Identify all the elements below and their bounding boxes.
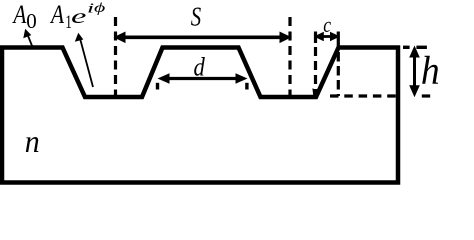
c dimension arrow [314,32,340,42]
svg-text:ϕ: ϕ [94,0,105,15]
label h [421,48,440,92]
label d [194,53,206,82]
c right tick + dashed line below ridge top [337,32,340,47]
label c [323,13,331,37]
A1 beam arrow [75,33,93,87]
d right tip tick [245,83,248,90]
svg-text:c: c [323,13,331,37]
d dimension arrow [156,73,249,89]
d left tip tick [156,83,159,90]
h dimension arrow [409,46,420,98]
svg-text:d: d [194,53,206,82]
dashed horizontal groove-bottom level line for h [330,94,400,97]
grating substrate outline [2,48,398,183]
svg-text:h: h [421,48,440,92]
A0 beam arrow [23,29,32,47]
c left tick + dashed line down to groove corner [314,32,317,44]
svg-text:A: A [49,1,64,29]
svg-text:A: A [12,1,27,29]
dashed vertical line, S right marker [288,17,291,96]
label A1 e^(i phi) [49,1,64,29]
svg-text:S: S [191,2,201,33]
dashed vertical line, S left marker [114,17,117,96]
label n [25,124,40,159]
S dimension arrow [114,32,292,44]
svg-text:e: e [71,5,87,28]
svg-text:0: 0 [26,9,37,33]
dashed horizontal top level line for h [403,46,410,49]
svg-text:n: n [25,124,40,159]
label S [191,2,201,33]
label A0 [12,1,27,29]
arrowhead artifact at groove-2 right-bottom corner [312,88,320,96]
